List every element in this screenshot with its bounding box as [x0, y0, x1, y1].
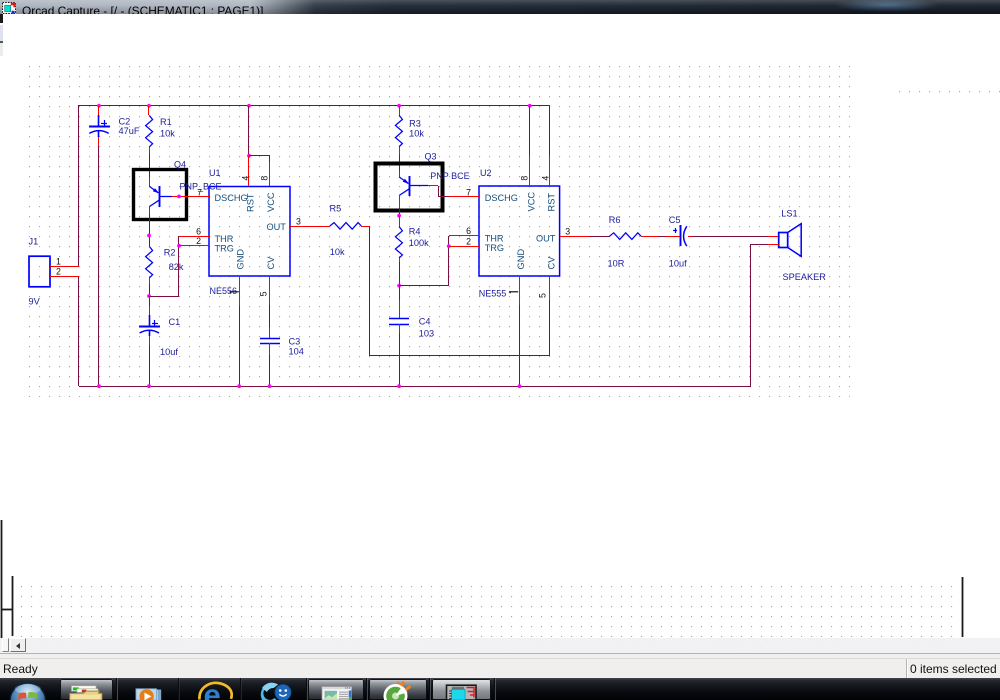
wire: stray vertical line left-2: [12, 576, 14, 636]
wire Q3 emitter to R4: [399, 208, 401, 216]
left edge window artifacts: [0, 14, 3, 23]
op-amp U1 (NE556 timer) body: [209, 187, 290, 277]
titlebar app icon: [2, 2, 16, 14]
svg-text:6: 6: [466, 226, 471, 236]
svg-text:U1: U1: [209, 168, 221, 178]
node: Q3 emitter / R4 junction: [397, 214, 401, 218]
svg-text:Q3: Q3: [425, 151, 437, 161]
wire C4 top lead: [399, 286, 401, 300]
wire GND bottom rail: [79, 386, 750, 388]
wire U2 GND to bottom rail: [519, 305, 521, 386]
pin 1 line (U1 GND): [239, 276, 241, 306]
resistor R4: [395, 227, 402, 259]
svg-text:TRG: TRG: [485, 243, 504, 253]
svg-text:Q4: Q4: [174, 159, 186, 169]
svg-text:7: 7: [466, 188, 471, 198]
svg-text:VCC: VCC: [266, 192, 276, 212]
wire C2 to bottom rail: [98, 146, 100, 386]
wire Q4 emitter to R2: [149, 214, 151, 246]
wire C3 top stub: [269, 327, 271, 338]
wire left rail upper (J1 pin1 to VCC): [78, 105, 80, 266]
svg-text:104: 104: [289, 346, 304, 356]
svg-text:U2: U2: [480, 168, 492, 178]
pin 2 of J1: [50, 276, 79, 278]
wire speaker top stub: [768, 236, 779, 238]
wire R1 to Q4: [149, 154, 151, 177]
svg-text:R5: R5: [330, 204, 342, 214]
svg-text:C2: C2: [119, 117, 131, 127]
transistor Q4 symbol: [149, 186, 172, 207]
wire left rail lower (J1 pin2 to GND): [78, 276, 80, 386]
svg-text:C3: C3: [289, 337, 301, 347]
svg-text:C4: C4: [419, 317, 431, 327]
svg-text:10uf: 10uf: [669, 258, 687, 268]
pin 1 line (U2 GND): [519, 276, 521, 305]
wire R5 to U2 CV vertical: [369, 226, 371, 356]
node: TRG junction (U1): [177, 244, 181, 248]
node: top rail / C2 junction: [97, 104, 101, 108]
node: top rail / U2 VCC junction: [528, 104, 532, 108]
wire C1 bottom stub: [149, 336, 151, 346]
resistor R1: [146, 115, 153, 146]
wire THR-TRG feedback horizontal: [149, 296, 179, 298]
svg-text:RST: RST: [546, 193, 556, 212]
wire Q3 base to U2 DSCHG: [438, 196, 449, 198]
svg-text:2: 2: [466, 236, 471, 246]
pin 6 line (U1 THR): [179, 236, 209, 238]
wire TRG feedback horizontal (U2): [399, 285, 449, 287]
wire TRG feedback vertical (U2): [448, 246, 450, 286]
wire R5 to U2 CV horizontal: [370, 355, 550, 357]
svg-text:10uf: 10uf: [160, 347, 178, 357]
resistor R6: [610, 233, 642, 240]
wire speaker return horizontal: [750, 244, 768, 246]
taskbar: OrCAD Capture icon (active): [447, 685, 477, 700]
op-amp U2 (NE555 timer) body: [479, 186, 560, 276]
wire: stray vertical line right: [962, 577, 964, 637]
node: bottom rail / C4 junction: [397, 384, 401, 388]
wire C4 top stub: [399, 300, 401, 319]
node: Q4 base junction: [177, 195, 181, 199]
wire R6 to C5: [641, 236, 658, 238]
svg-text:10k: 10k: [330, 247, 345, 257]
wire U1 CV to C3: [269, 305, 271, 327]
svg-text:GND: GND: [516, 249, 526, 270]
svg-text:TRG: TRG: [215, 244, 234, 254]
wire top rail end down to U2 RST: [549, 105, 551, 156]
svg-text:GND: GND: [236, 249, 246, 270]
svg-text:DSCHG: DSCHG: [485, 193, 518, 203]
resistor R2: [146, 246, 153, 278]
node: Q4 emitter / R2 junction: [147, 234, 151, 238]
pin number 1 (U1, rotated): [230, 292, 239, 293]
svg-text:PNP BCE: PNP BCE: [430, 171, 469, 181]
wire THR corner to TRG (U2): [448, 236, 450, 246]
wire R4 bottom stub: [399, 258, 401, 262]
pin 4 line (U1 RST): [248, 156, 250, 186]
node: top rail / R3 junction: [397, 104, 401, 108]
svg-text:10R: 10R: [608, 258, 625, 268]
svg-text:VCC: VCC: [526, 192, 536, 212]
resistor R3: [395, 115, 402, 147]
node: top rail / R1 junction: [147, 104, 151, 108]
transistor Q3 symbol: [399, 176, 428, 196]
wire speaker bottom stub: [768, 244, 779, 246]
wire R3 bottom stub: [399, 147, 401, 155]
wire R2 to C1 node: [149, 284, 151, 306]
horizontal scrollbar: [0, 638, 1000, 653]
wire R3 top stub: [399, 106, 401, 115]
svg-text:R3: R3: [409, 118, 421, 128]
node: bottom rail / C2 junction: [97, 384, 101, 388]
svg-text:9V: 9V: [29, 297, 41, 307]
svg-text:10k: 10k: [409, 128, 424, 138]
wire speaker return vertical: [750, 245, 752, 387]
svg-text:NE556: NE556: [210, 286, 238, 296]
taskbar: Windows Media Player icon: [136, 689, 161, 700]
wire Q3 base corner down: [438, 186, 440, 197]
pin 3 line (U1 OUT): [290, 226, 330, 228]
wire U2 OUT to R6: [589, 236, 610, 238]
wire C4 to bottom rail: [399, 333, 401, 386]
pin 8 line (U1 VCC): [269, 162, 271, 186]
pin 1 of J1: [50, 266, 79, 268]
svg-text:CV: CV: [546, 256, 556, 270]
wire up to U2 CV: [549, 300, 551, 356]
svg-text:8: 8: [260, 176, 270, 181]
wire top rail to U1 RST-VCC bridge: [248, 106, 250, 156]
wire top rail to U2 VCC: [529, 106, 531, 156]
taskbar: Internet Explorer icon: [199, 678, 231, 700]
wire RST-VCC bridge (U1): [249, 155, 270, 157]
svg-text:100k: 100k: [409, 238, 429, 248]
svg-text:5: 5: [259, 291, 269, 296]
node: bottom rail / U2 GND junction: [518, 384, 522, 388]
svg-text:DSCHG: DSCHG: [215, 193, 248, 203]
title bar: [0, 0, 1000, 14]
speaker LS1: [779, 224, 802, 257]
node: RST/VCC bridge junction (U1): [247, 154, 251, 158]
svg-text:R4: R4: [409, 227, 421, 237]
svg-text:4: 4: [540, 176, 550, 181]
taskbar: document window icon: [322, 687, 352, 700]
svg-text:e: e: [204, 678, 221, 700]
taskbar: green media app icon: [384, 681, 412, 700]
wire R6-C5 middle: [658, 236, 666, 238]
wire Q4 emitter stub: [149, 207, 151, 214]
wire C5 left stub: [666, 236, 680, 238]
wire C3 bottom stub: [269, 343, 271, 355]
node: top rail / U1 RST junction: [247, 104, 251, 108]
wire: stray horizontal line left: [2, 609, 13, 611]
pin 2 line (U1 TRG): [179, 245, 209, 247]
pin 2 line (U2 TRG): [449, 246, 479, 248]
pin 7 line (U2 DSCHG): [449, 196, 479, 198]
pin 8 line (U2 VCC): [529, 156, 531, 186]
wire: stray vertical line left: [1, 520, 3, 638]
resistor R5: [330, 223, 362, 230]
capacitor C3: [260, 338, 280, 340]
svg-text:C5: C5: [669, 215, 681, 225]
capacitor C4: [389, 318, 409, 320]
svg-text:8: 8: [520, 176, 530, 181]
taskbar: Windows start orb: [10, 683, 45, 700]
taskbar: [0, 678, 1000, 700]
node: bottom rail / C3 junction: [268, 384, 272, 388]
wire C1 to bottom rail: [149, 346, 151, 386]
svg-text:82k: 82k: [169, 262, 184, 272]
svg-text:LS1: LS1: [781, 209, 797, 219]
svg-text:J1: J1: [29, 237, 39, 247]
wire R4 to C4 node: [399, 262, 401, 286]
wire R2 bottom stub: [149, 278, 151, 284]
wire VCC top rail: [79, 105, 550, 107]
status bar: [0, 653, 1000, 679]
svg-text:3: 3: [565, 226, 570, 236]
pin 7 line (U1 DSCHG): [195, 196, 209, 198]
wire R5 right stub: [361, 226, 370, 228]
svg-text:47uF: 47uF: [119, 126, 140, 136]
svg-text:103: 103: [419, 328, 434, 338]
pin 4 line (U2 RST): [549, 156, 551, 186]
capacitor C1: [149, 315, 151, 326]
selection box around Q4: [134, 170, 187, 220]
wire C2 top stub: [98, 106, 100, 116]
svg-text:NE555: NE555: [479, 289, 507, 299]
svg-text:2: 2: [196, 236, 201, 246]
wire C1 top stub: [149, 306, 151, 316]
svg-text:OUT: OUT: [267, 222, 287, 232]
transistor Q3 collector lead: [399, 171, 401, 177]
wire THR-TRG feedback vertical: [178, 246, 180, 296]
wire C4 bottom stub: [399, 324, 401, 333]
wire Q4 base to U1 DSCHG: [172, 196, 209, 198]
taskbar: messenger smiley icon: [261, 683, 291, 700]
taskbar: Windows Explorer folder icon: [70, 686, 102, 700]
wire C5 right stub: [688, 236, 692, 238]
wire bridge down to VCC (U1): [269, 156, 271, 162]
svg-text:R1: R1: [160, 117, 172, 127]
svg-text:2: 2: [56, 267, 61, 277]
svg-text:4: 4: [240, 176, 250, 181]
svg-text:C1: C1: [169, 317, 181, 327]
svg-text:R2: R2: [164, 247, 176, 257]
wire R1 bottom stub: [149, 147, 151, 154]
pin 6 line (U2 THR): [449, 235, 479, 237]
node: R2 / C1 / THR-TRG junction: [147, 294, 151, 298]
svg-text:OUT: OUT: [536, 234, 556, 244]
pin 5 line (U2 CV): [549, 276, 551, 300]
capacitor C2: [98, 115, 100, 127]
wire C3 to bottom rail: [269, 355, 271, 386]
pin 3 line (U2 OUT): [560, 236, 589, 238]
svg-text:CV: CV: [266, 256, 276, 270]
node: bottom rail / C1 junction: [147, 384, 151, 388]
wire C5 to speaker: [692, 236, 768, 238]
capacitor C5 (polarized, horizontal): [673, 225, 687, 246]
svg-text:6: 6: [196, 226, 201, 236]
pin 5 line (U1 CV): [269, 276, 271, 305]
node: TRG junction (U2): [447, 244, 451, 248]
pin number 1 (U2, rotated): [509, 292, 518, 293]
svg-text:10k: 10k: [160, 129, 175, 139]
node: bottom rail / U1 GND junction: [237, 384, 241, 388]
connector J1: [29, 256, 50, 287]
node: R4 / C4 / TRG junction (U2): [397, 284, 401, 288]
wire Q3 emitter stub: [399, 196, 401, 208]
wire Q3 base stub: [428, 185, 438, 187]
selection box around Q3: [376, 164, 443, 211]
svg-text:1: 1: [56, 256, 61, 266]
wire R1 top stub: [148, 106, 150, 115]
svg-text:R6: R6: [609, 215, 621, 225]
svg-text:3: 3: [296, 216, 301, 226]
svg-text:RST: RST: [246, 193, 256, 212]
svg-text:5: 5: [538, 293, 548, 298]
wire THR corner to TRG (U1): [178, 236, 180, 246]
svg-text:SPEAKER: SPEAKER: [783, 272, 827, 282]
wire U1 GND to bottom rail: [239, 306, 241, 386]
wire R4 top stub: [399, 216, 401, 227]
transistor Q4 collector lead: [149, 177, 151, 186]
svg-text:7: 7: [197, 187, 202, 197]
wire R3 to Q3: [399, 155, 401, 171]
wire C2 bottom stub: [98, 137, 100, 146]
